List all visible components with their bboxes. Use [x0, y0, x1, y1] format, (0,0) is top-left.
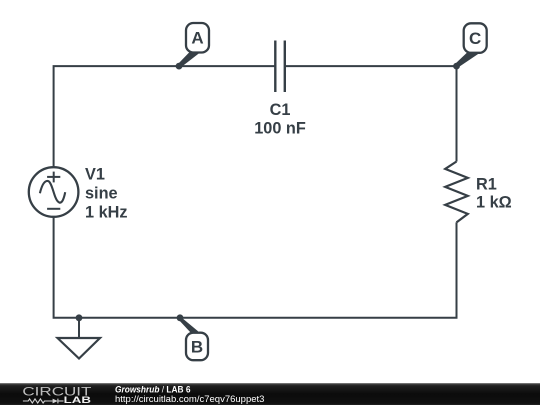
- svg-text:V1: V1: [85, 166, 105, 184]
- svg-text:B: B: [191, 338, 203, 357]
- label V1: [85, 166, 128, 222]
- node label B: [179, 319, 208, 361]
- logo diode: [53, 399, 58, 404]
- svg-text:1 kHz: 1 kHz: [85, 204, 128, 222]
- voltage source V1: [29, 167, 79, 217]
- node dot ground: [76, 314, 83, 321]
- wire top-left to capacitor: [54, 66, 276, 167]
- node label C: [456, 23, 487, 66]
- svg-text:C1: C1: [270, 101, 291, 119]
- node label A: [178, 23, 209, 67]
- label R1: [476, 176, 512, 212]
- ground: [58, 338, 101, 359]
- resistor R1: [445, 162, 468, 223]
- node dot C: [453, 63, 460, 70]
- capacitor C1: [275, 41, 285, 93]
- wire capacitor to top-right corner: [285, 66, 457, 161]
- svg-text:sine: sine: [85, 185, 118, 203]
- wire ground stub: [78, 318, 80, 338]
- svg-text:1 kΩ: 1 kΩ: [476, 194, 512, 212]
- svg-text:LAB: LAB: [64, 395, 91, 405]
- logo squiggle wire+resistor: [23, 399, 64, 404]
- node dot A: [176, 63, 183, 70]
- svg-text:100 nF: 100 nF: [254, 120, 306, 138]
- wire resistor bottom to bottom-right corner: [54, 217, 457, 318]
- svg-text:R1: R1: [476, 176, 497, 194]
- svg-text:C: C: [469, 29, 481, 48]
- svg-text:A: A: [191, 29, 203, 48]
- svg-text:http://circuitlab.com/c7eqv76u: http://circuitlab.com/c7eqv76uppet3: [115, 394, 264, 405]
- label C1: [254, 101, 306, 138]
- node dot B: [177, 314, 184, 321]
